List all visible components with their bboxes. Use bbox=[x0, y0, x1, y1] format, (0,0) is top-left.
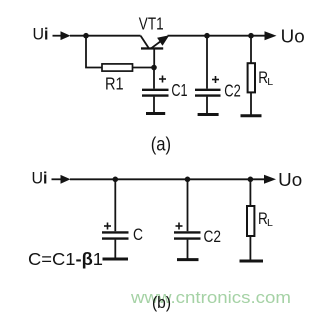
wire input stub (b) bbox=[52, 178, 64, 180]
junction RL top (a) bbox=[248, 33, 254, 39]
svg-text:C=C1-β1: C=C1-β1 bbox=[28, 249, 103, 269]
wire top rail right (a) bbox=[168, 35, 265, 37]
value label C=C1-B1 bbox=[28, 249, 103, 269]
junction base node bbox=[151, 65, 157, 71]
resistor RL (a) bbox=[248, 36, 274, 115]
svg-text:C: C bbox=[133, 225, 143, 244]
ground C (b) bbox=[103, 258, 129, 261]
label (b) bbox=[152, 293, 171, 312]
ground C1 bbox=[146, 112, 165, 115]
node Ui (a) input label bbox=[33, 26, 49, 44]
capacitor C1 bbox=[142, 68, 188, 114]
input arrow (a) bbox=[61, 31, 71, 40]
node Uo (a) output label bbox=[281, 27, 305, 47]
wire down to R1 (a) bbox=[86, 36, 102, 68]
ground RL (a) bbox=[241, 114, 262, 117]
svg-text:L: L bbox=[267, 76, 273, 88]
svg-text:R1: R1 bbox=[105, 74, 124, 94]
capacitor C2 (b) bbox=[174, 179, 221, 259]
svg-text:Uo: Uo bbox=[281, 27, 305, 47]
wire top rail left (a) bbox=[70, 35, 141, 37]
svg-text:C2: C2 bbox=[224, 81, 241, 101]
svg-text:(b): (b) bbox=[152, 293, 171, 312]
svg-text:(a): (a) bbox=[151, 134, 171, 156]
label (a) bbox=[151, 134, 171, 156]
resistor RL (b) bbox=[247, 179, 273, 260]
output arrow (b) bbox=[264, 175, 276, 184]
transistor VT1 bbox=[139, 14, 170, 68]
ground RL (b) bbox=[240, 260, 264, 263]
ground C2 (b) bbox=[177, 258, 199, 261]
wire top rail (b) bbox=[70, 178, 265, 180]
svg-text:C2: C2 bbox=[204, 227, 222, 246]
junction input node (a) bbox=[83, 33, 89, 39]
svg-text:Ui: Ui bbox=[33, 26, 49, 44]
resistor R1 bbox=[102, 64, 133, 71]
junction RL top (b) bbox=[248, 177, 254, 183]
junction C2 top (b) bbox=[185, 177, 191, 183]
svg-text:Ui: Ui bbox=[32, 170, 48, 188]
wire R1 to base node bbox=[133, 67, 155, 69]
junction C2 top (a) bbox=[204, 33, 210, 39]
capacitor C (b) bbox=[102, 179, 143, 258]
svg-text:C1: C1 bbox=[171, 80, 187, 100]
output arrow (a) bbox=[265, 31, 277, 40]
node Ui (b) input label bbox=[32, 170, 48, 188]
watermark bbox=[130, 289, 291, 307]
junction C top (b) bbox=[113, 177, 119, 183]
node Uo (b) output label bbox=[278, 170, 302, 190]
svg-text:L: L bbox=[267, 217, 273, 229]
capacitor C2 (a) bbox=[195, 36, 241, 114]
wire input stub (a) bbox=[53, 35, 64, 37]
svg-text:VT1: VT1 bbox=[139, 14, 164, 34]
input arrow (b) bbox=[61, 175, 71, 184]
ground C2 (a) bbox=[198, 113, 219, 116]
svg-text:Uo: Uo bbox=[278, 170, 302, 190]
